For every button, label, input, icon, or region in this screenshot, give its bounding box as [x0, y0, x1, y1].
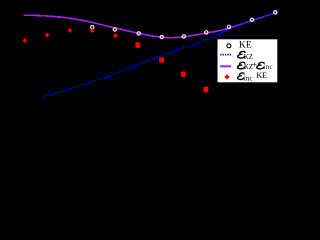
KE open circle markers — [91, 11, 277, 39]
svg-text:KE: KE — [239, 40, 252, 51]
legend row1: KE open circle — [227, 44, 231, 48]
legend row4: eps_inc KE red diamond — [224, 74, 229, 79]
legend row3: eps_KZ+eps_inc purple line — [220, 65, 231, 67]
legend row2: eps_KZ blue dotted — [220, 54, 231, 56]
svg-text:KE: KE — [256, 71, 267, 80]
red diamond markers: eps_inc KE — [23, 28, 118, 43]
red square markers lower branch — [135, 41, 208, 93]
purple curve: eps_KZ + eps_inc model — [24, 12, 278, 37]
blue dotted line: eps_KZ — [43, 12, 277, 96]
svg-text:inc: inc — [243, 75, 252, 83]
legend box — [218, 39, 278, 82]
